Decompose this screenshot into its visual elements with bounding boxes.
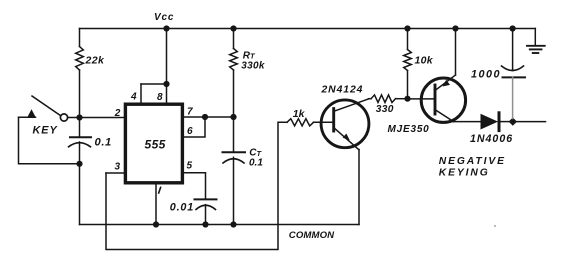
junction dot 330/10k [404,96,410,102]
svg-text:22k: 22k [85,55,105,67]
wire left vertical down to common [79,164,81,225]
emitter diagonal [436,75,455,90]
resistor 330 [371,95,396,115]
pin label 7 [187,107,193,118]
svg-text:330: 330 [376,104,394,115]
pin label 2 [114,108,121,119]
wire pin4-pin8 bracket [141,83,167,85]
capacitor 1000 [471,29,525,119]
transistor Q2 MJE350 [388,75,466,135]
wire node to Q2 base [408,98,436,100]
resistor 1k [287,108,314,126]
ground [527,29,545,54]
wire key contact to left corner [19,116,36,118]
base bar [434,85,437,114]
svg-text:KEY: KEY [33,125,59,137]
wire pin 3 output loop [106,122,287,249]
pin label 8 [157,92,163,103]
collector diagonal [335,99,369,111]
svg-text:0.1: 0.1 [249,157,263,168]
svg-text:1k: 1k [293,108,306,120]
svg-text:555: 555 [145,138,166,152]
label NEGATIVE KEYING [439,156,506,179]
wire common line A [80,224,360,226]
emitter arrow [343,134,350,141]
junction dot 0.01 common [202,221,208,227]
svg-text:2: 2 [114,108,121,119]
base bar [332,109,335,131]
pin 4 stub [140,84,142,103]
wire 22k to key line [79,70,81,118]
wire pin 3 [106,172,125,174]
junction dot Vcc rail [163,25,169,31]
resistor 22k [76,47,105,71]
resistor 10k [404,50,434,71]
wire 330 to node [396,98,408,100]
key contact arrow [27,109,35,117]
pin 8 stub [166,84,168,103]
key switch KEY [27,96,67,137]
capacitor 0.1 (key debounce) [69,118,112,164]
junction dot diode/cap (diamond) [509,118,517,126]
wire key left L down [19,117,80,164]
wire Q2 emitter to rail [455,29,457,76]
svg-text:8: 8 [157,92,163,103]
junction dot 0.1 bottom [76,161,82,167]
emitter diagonal [335,129,359,150]
wire pin 7 to RT/CT node [183,116,234,118]
wire key pivot to pin 2 [68,117,124,119]
resistor RT 330k [230,49,265,72]
node Vcc label [154,12,174,23]
svg-text:0.1: 0.1 [95,137,112,149]
junction dot RT rail [230,25,236,31]
junction dot pin1 common [153,221,159,227]
pin label 5 [187,161,193,172]
svg-text:5: 5 [187,161,193,172]
svg-text:330k: 330k [241,60,265,71]
node COMMON label [289,230,335,241]
diode D1 1N4006 [470,113,513,145]
svg-text:KEYING: KEYING [439,167,490,178]
key pivot circle [60,114,67,121]
junction dot Q2 emitter rail [452,25,458,31]
wire Q2 collector to diode [451,121,481,123]
wire 1k to Q1 base [314,121,334,123]
stray speck [494,225,496,227]
svg-text:Vcc: Vcc [154,12,174,23]
transistor Q1 2N4124 [321,84,369,149]
wire pin 5 [183,173,206,199]
collector diagonal [436,111,453,122]
svg-text:10k: 10k [415,55,434,67]
svg-text:6: 6 [187,126,193,137]
wire Vcc drop to bracket [166,29,168,85]
capacitor 0.01 [170,199,217,224]
pin label 4 [130,91,137,102]
svg-text:1N4006: 1N4006 [470,133,513,145]
junction dot bracket [163,81,169,87]
pin label 6 [187,126,193,137]
junction dot 1000 cap rail [509,25,515,31]
svg-text:MJE350: MJE350 [388,124,430,135]
pin label 3 [115,162,121,173]
junction dot 10k rail [404,25,410,31]
junction dot pin6 riser [202,114,208,120]
wire RT to pin7 node [233,70,235,152]
junction dot CT common [230,221,236,227]
junction dot pin7 at CT line [230,114,236,120]
wire keyed output line [517,121,546,123]
wire diode to junction [500,121,510,123]
wire Q1 emitter to common [358,150,360,225]
svg-text:0.01: 0.01 [170,202,194,214]
op-amp U1 555 timer box [125,104,182,183]
svg-text:7: 7 [187,107,193,118]
wire pin 6 [183,117,205,137]
wire top supply rail [80,28,536,30]
wire 10k to node [407,71,409,99]
junction dot key line / 22k [76,114,82,120]
wire pin 1 down [155,183,157,225]
pin label 1 [159,187,161,193]
capacitor CT 0.1 [223,148,264,225]
svg-text:COMMON: COMMON [289,230,335,241]
svg-text:4: 4 [130,91,137,102]
svg-text:2N4124: 2N4124 [321,84,364,95]
wire rail to 10k [407,29,409,50]
svg-text:1000: 1000 [471,68,501,80]
wire left vertical from rail to 22k [79,29,81,47]
wire Q1 collector to 330 [369,98,372,100]
wire rail to RT [233,29,235,49]
svg-text:3: 3 [115,162,121,173]
emitter arrow (PNP, points to bar) [443,80,451,87]
svg-text:NEGATIVE: NEGATIVE [439,156,506,167]
key lever [32,96,61,116]
